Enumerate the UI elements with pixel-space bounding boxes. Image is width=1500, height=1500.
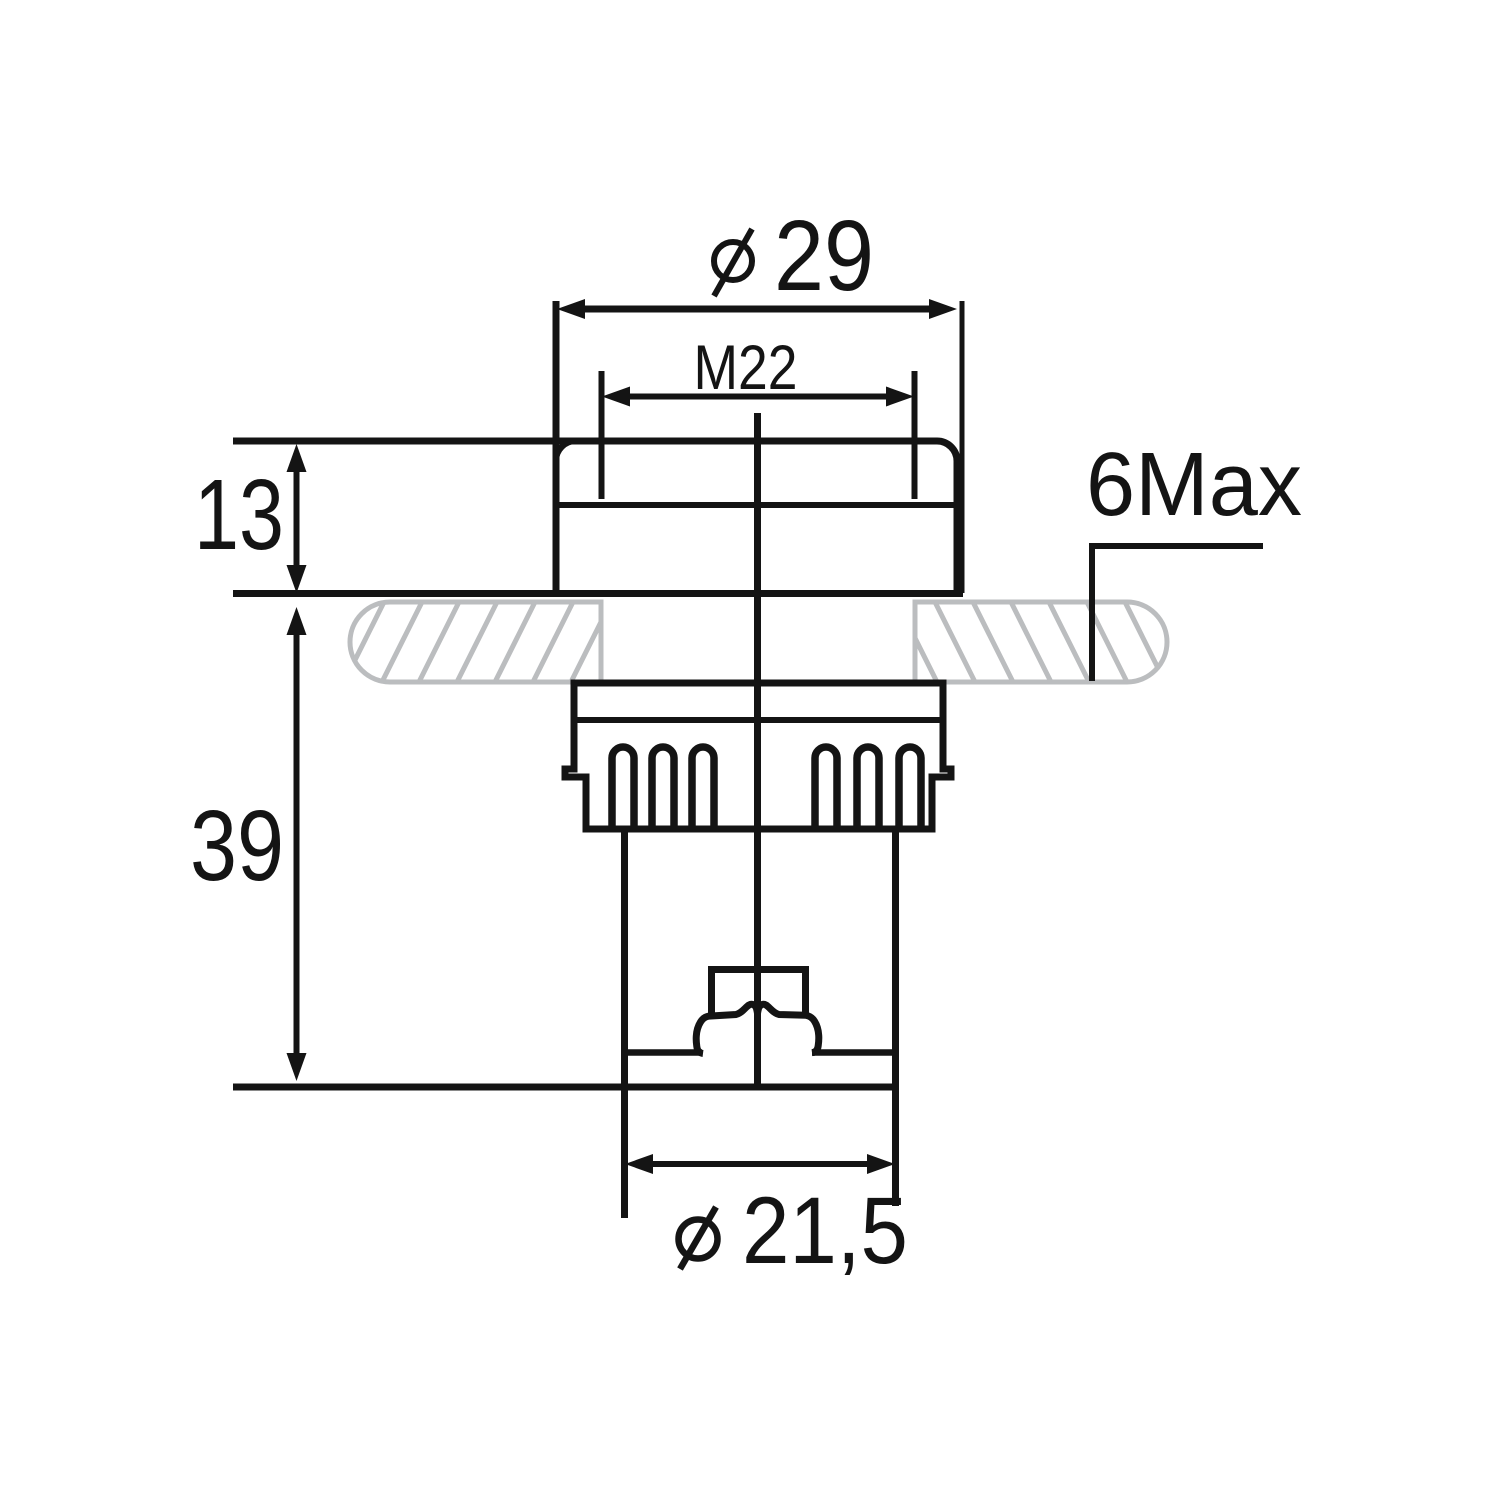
dimension line ⌀29 [557,299,957,319]
dimension line M22 [602,387,914,407]
collar and knurled nut outline [565,683,951,829]
terminal screw square [712,970,806,1016]
panel right piece [897,602,1203,682]
head top-right corner arc [937,441,957,461]
diameter symbol for ⌀21,5 [679,1207,718,1269]
svg-text:M22: M22 [694,333,798,403]
head bottom reference line [233,590,963,597]
bottom reference line [233,1084,896,1091]
knurl slot arch 1 [612,747,634,829]
head top-left corner arc [556,441,576,461]
body right side [892,829,899,1206]
panel left piece [268,602,611,682]
body inner line left [626,1049,702,1056]
center axis line [754,413,761,1087]
extension line ⌀29 right [960,301,965,593]
extension line M22 left [599,371,605,499]
body inner line right [812,1049,894,1056]
dimension line ⌀21,5 [625,1154,895,1174]
dimension line 39 [287,607,307,1081]
extension line M22 right [912,371,918,499]
svg-text:6Max: 6Max [1086,435,1302,535]
svg-text:29: 29 [774,200,874,312]
svg-text:21,5: 21,5 [742,1178,908,1284]
svg-text:39: 39 [190,790,284,902]
knurl slot arch 6 [899,747,921,829]
screw boot wavy profile [696,1004,819,1053]
dimension line 13 [287,444,307,593]
knurl slot arch 3 [692,747,714,829]
svg-text:13: 13 [194,459,284,571]
diameter symbol for ⌀29 [714,229,752,296]
leader line 6Max [1092,546,1263,681]
head right edge [954,459,961,593]
extension line ⌀29 left [553,301,560,593]
body left side [621,829,628,1218]
knurl slot arch 4 [815,747,837,829]
collar band line [574,717,943,723]
head top reference line [233,438,937,445]
head cap line [556,502,957,508]
knurl slot arch 5 [857,747,879,829]
knurl slot arch 2 [652,747,674,829]
